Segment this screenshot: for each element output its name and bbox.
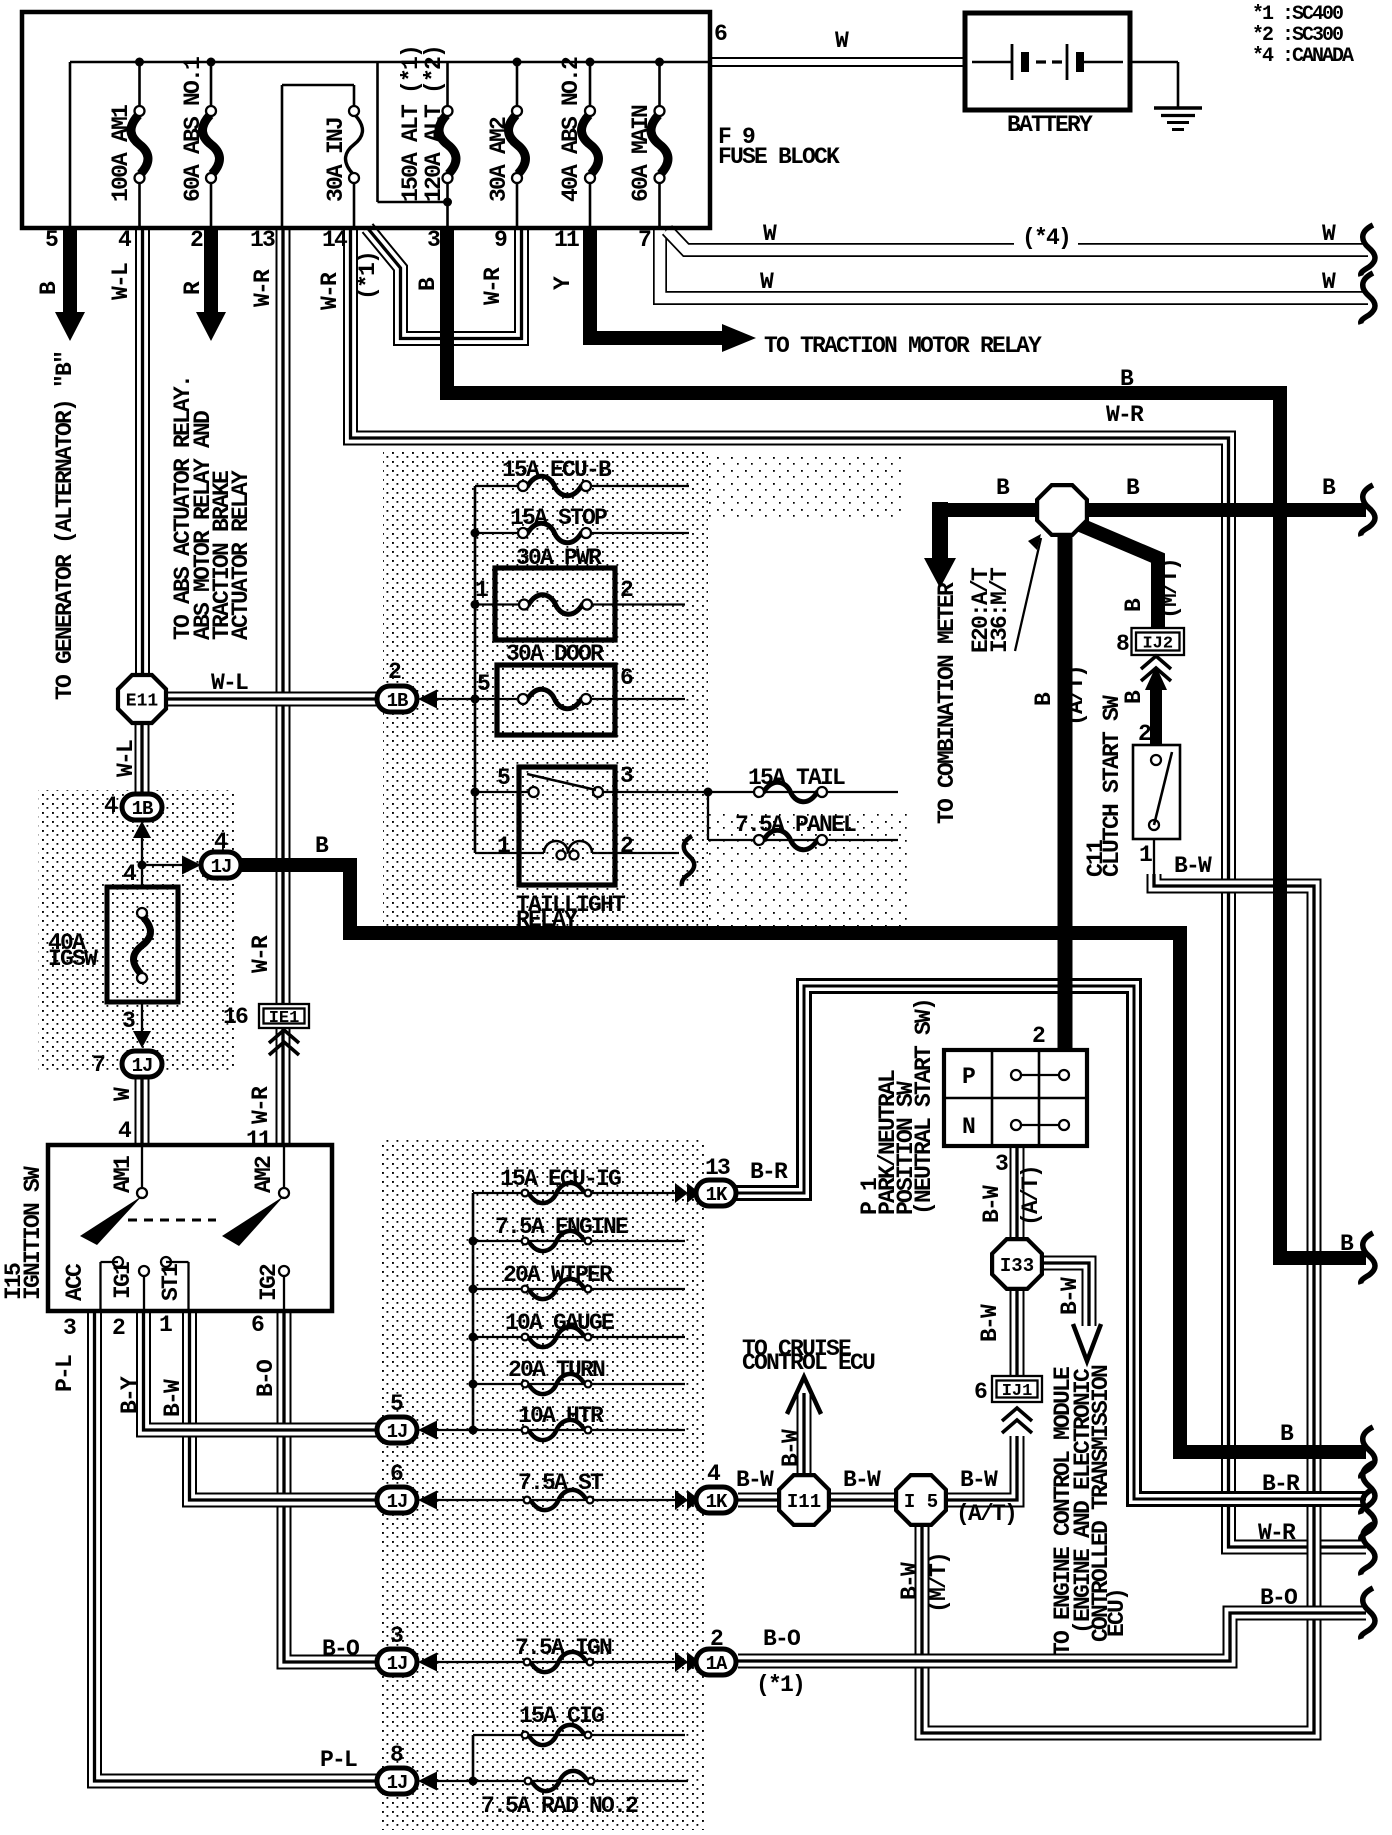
svg-text:B-O: B-O [763, 1626, 800, 1652]
svg-text:B: B [1280, 1421, 1294, 1447]
svg-text:2: 2 [710, 1626, 723, 1652]
svg-text:W-L: W-L [211, 670, 248, 696]
svg-text:7.5A IGN: 7.5A IGN [515, 1635, 612, 1661]
svg-text:15A TAIL: 15A TAIL [748, 765, 845, 791]
svg-text:2: 2 [388, 659, 401, 685]
svg-text:E11: E11 [126, 691, 159, 711]
svg-text:W-R: W-R [317, 272, 343, 310]
svg-text:FUSE BLOCK: FUSE BLOCK [718, 144, 840, 170]
svg-text:4: 4 [118, 227, 132, 253]
svg-text:I36:M/T: I36:M/T [987, 567, 1013, 653]
svg-text:2: 2 [112, 1315, 125, 1341]
svg-text:4: 4 [118, 1118, 132, 1144]
svg-text:W: W [763, 221, 777, 247]
svg-text:10A HTR: 10A HTR [518, 1403, 604, 1429]
svg-text:TO COMBINATION METER: TO COMBINATION METER [934, 582, 960, 824]
svg-text:1A: 1A [706, 1653, 728, 1675]
svg-text:7.5A ST: 7.5A ST [518, 1470, 604, 1496]
svg-text:W-R: W-R [250, 269, 276, 307]
svg-text:1: 1 [159, 1312, 172, 1338]
svg-text:B-W: B-W [977, 1304, 1003, 1342]
svg-text:B-W: B-W [736, 1467, 774, 1493]
svg-text:13: 13 [705, 1155, 730, 1181]
svg-text:B-O: B-O [253, 1360, 279, 1397]
svg-text:B-W: B-W [960, 1467, 998, 1493]
svg-text:1J: 1J [387, 1772, 408, 1794]
svg-text:5: 5 [497, 765, 510, 791]
svg-text:30A INJ: 30A INJ [323, 118, 349, 202]
svg-text:7.5A ENGINE: 7.5A ENGINE [495, 1214, 628, 1240]
svg-text:W-R: W-R [1258, 1520, 1296, 1546]
svg-text:W: W [1322, 269, 1336, 295]
svg-text:2: 2 [190, 227, 203, 253]
svg-text:IJ1: IJ1 [1002, 1382, 1033, 1401]
svg-text:R: R [180, 281, 206, 295]
svg-text:W-R: W-R [1106, 402, 1144, 428]
svg-text:B-R: B-R [1262, 1471, 1300, 1497]
svg-text:B: B [1126, 475, 1140, 501]
svg-text:Y: Y [550, 276, 576, 290]
svg-text:ST1: ST1 [158, 1264, 184, 1301]
svg-text:30A PWR: 30A PWR [516, 545, 602, 571]
svg-text:(A/T): (A/T) [956, 1501, 1016, 1527]
svg-text:ACC: ACC [62, 1263, 88, 1301]
svg-text:I11: I11 [787, 1491, 821, 1513]
svg-text:I33: I33 [1000, 1255, 1034, 1277]
svg-text:B-O: B-O [322, 1636, 359, 1662]
svg-text:2: 2 [1138, 721, 1151, 747]
svg-text:B-W: B-W [160, 1379, 186, 1417]
svg-text:1J: 1J [211, 856, 232, 878]
svg-text:3: 3 [620, 763, 633, 789]
svg-text:30A AM2: 30A AM2 [486, 117, 512, 202]
svg-text:4: 4 [707, 1461, 721, 1487]
svg-text:B-W: B-W [843, 1467, 881, 1493]
svg-text:16: 16 [223, 1004, 248, 1030]
svg-text:W-L: W-L [113, 740, 139, 777]
svg-text:B-W: B-W [778, 1429, 804, 1467]
svg-text:P: P [962, 1064, 975, 1090]
svg-text:W-R: W-R [248, 935, 274, 973]
svg-text:(*4): (*4) [1022, 225, 1070, 251]
svg-text:7.5A RAD NO.2: 7.5A RAD NO.2 [481, 1793, 638, 1819]
svg-text:30A DOOR: 30A DOOR [506, 641, 604, 667]
svg-text:13: 13 [250, 227, 275, 253]
svg-text:15A ECU-IG: 15A ECU-IG [500, 1166, 621, 1192]
svg-text:IE1: IE1 [269, 1009, 300, 1028]
svg-text:6: 6 [974, 1379, 987, 1405]
svg-text:W: W [110, 1087, 136, 1101]
svg-text:15A STOP: 15A STOP [510, 505, 607, 531]
svg-text:1B: 1B [387, 690, 408, 712]
svg-text:B-R: B-R [750, 1159, 788, 1185]
svg-text:2: 2 [620, 833, 633, 859]
svg-text:5: 5 [45, 227, 58, 253]
svg-text:B: B [996, 475, 1010, 501]
svg-text:8: 8 [1116, 631, 1129, 657]
svg-text:11: 11 [554, 227, 579, 253]
svg-text:(A/T): (A/T) [1018, 1166, 1044, 1226]
svg-text:1B: 1B [132, 798, 153, 820]
svg-text:W-R: W-R [248, 1086, 274, 1124]
svg-text:CLUTCH START SW: CLUTCH START SW [1099, 695, 1125, 877]
svg-text:4: 4 [123, 861, 137, 887]
svg-text:100A AM1: 100A AM1 [108, 105, 134, 202]
svg-text:3: 3 [427, 227, 440, 253]
svg-text:4: 4 [104, 793, 118, 819]
svg-text:6: 6 [390, 1461, 403, 1487]
svg-text:2: 2 [1032, 1023, 1045, 1049]
svg-text:120A ALT (*2): 120A ALT (*2) [421, 46, 447, 202]
svg-text:6: 6 [620, 665, 633, 691]
svg-text:B: B [1031, 692, 1057, 706]
svg-text:10A GAUGE: 10A GAUGE [505, 1310, 614, 1336]
svg-text:B: B [415, 277, 441, 291]
svg-text:B-Y: B-Y [117, 1376, 143, 1414]
svg-text:IGSW: IGSW [48, 946, 98, 972]
svg-text:W-R: W-R [480, 267, 506, 305]
svg-text:60A ABS NO.1: 60A ABS NO.1 [180, 57, 206, 202]
svg-text:1: 1 [1139, 842, 1152, 868]
svg-text:B-W: B-W [979, 1185, 1005, 1223]
svg-text:8: 8 [390, 1742, 403, 1768]
svg-text:3: 3 [390, 1623, 403, 1649]
svg-text:N: N [962, 1114, 975, 1140]
svg-text:3: 3 [122, 1008, 135, 1034]
svg-text:I 5: I 5 [904, 1491, 938, 1513]
svg-text:AM1: AM1 [110, 1156, 136, 1193]
svg-text:1J: 1J [387, 1421, 408, 1443]
svg-text:(*1): (*1) [756, 1672, 804, 1698]
svg-text:B: B [1121, 598, 1147, 612]
svg-text:TO TRACTION MOTOR RELAY: TO TRACTION MOTOR RELAY [764, 333, 1042, 359]
svg-text:40A ABS NO.2: 40A ABS NO.2 [558, 57, 584, 202]
svg-text:*2 :SC300: *2 :SC300 [1252, 24, 1343, 47]
svg-text:11: 11 [246, 1127, 271, 1153]
svg-text:*4 :CANADA: *4 :CANADA [1252, 45, 1354, 68]
svg-text:B: B [36, 281, 62, 295]
svg-text:IG1: IG1 [110, 1262, 136, 1299]
svg-text:(M/T): (M/T) [926, 1553, 952, 1613]
svg-text:IG2: IG2 [256, 1264, 282, 1301]
svg-text:TO GENERATOR (ALTERNATOR) "B": TO GENERATOR (ALTERNATOR) "B" [52, 352, 78, 700]
svg-text:(*1): (*1) [355, 252, 381, 300]
svg-text:9: 9 [494, 227, 507, 253]
svg-text:(M/T): (M/T) [1157, 559, 1183, 619]
svg-text:B: B [315, 833, 329, 859]
svg-text:B-O: B-O [1260, 1585, 1297, 1611]
svg-text:1K: 1K [706, 1184, 728, 1206]
svg-text:3: 3 [63, 1315, 76, 1341]
svg-text:IGNITION SW: IGNITION SW [20, 1166, 46, 1300]
svg-text:W: W [835, 28, 849, 54]
svg-text:2: 2 [620, 577, 633, 603]
svg-text:B: B [1322, 475, 1336, 501]
svg-text:B-W: B-W [897, 1562, 923, 1600]
svg-text:IJ2: IJ2 [1142, 635, 1173, 654]
svg-text:60A MAIN: 60A MAIN [628, 105, 654, 202]
svg-text:P-L: P-L [320, 1747, 357, 1773]
svg-text:W-L: W-L [108, 263, 134, 300]
svg-text:1J: 1J [387, 1491, 408, 1513]
svg-text:AM2: AM2 [251, 1156, 277, 1193]
svg-text:20A WIPER: 20A WIPER [503, 1262, 613, 1288]
svg-text:*1 :SC400: *1 :SC400 [1252, 3, 1343, 26]
svg-text:B-W: B-W [1174, 853, 1212, 879]
svg-text:7: 7 [92, 1052, 105, 1078]
svg-text:15A CIG: 15A CIG [519, 1703, 604, 1729]
svg-text:RELAY: RELAY [516, 907, 578, 933]
svg-text:W: W [1322, 221, 1336, 247]
svg-text:W: W [760, 269, 774, 295]
svg-text:5: 5 [390, 1391, 403, 1417]
svg-text:P-L: P-L [52, 1355, 78, 1392]
svg-text:CONTROL ECU: CONTROL ECU [742, 1350, 875, 1376]
svg-text:3: 3 [995, 1151, 1008, 1177]
svg-text:20A TURN: 20A TURN [508, 1357, 605, 1383]
svg-text:BATTERY: BATTERY [1007, 112, 1093, 138]
svg-text:1: 1 [497, 833, 510, 859]
svg-text:1J: 1J [132, 1055, 153, 1077]
svg-text:1J: 1J [387, 1653, 408, 1675]
svg-text:1: 1 [475, 577, 488, 603]
svg-text:15A ECU-B: 15A ECU-B [502, 457, 612, 483]
svg-text:B: B [1340, 1231, 1354, 1257]
svg-text:B: B [1120, 366, 1134, 392]
svg-text:7.5A PANEL: 7.5A PANEL [735, 812, 856, 838]
svg-text:4: 4 [214, 829, 228, 855]
svg-text:14: 14 [322, 227, 348, 253]
svg-text:(A/T): (A/T) [1063, 666, 1089, 726]
svg-text:1K: 1K [706, 1491, 728, 1513]
svg-text:B-W: B-W [1057, 1277, 1083, 1315]
svg-text:6: 6 [251, 1312, 264, 1338]
svg-text:ECU): ECU) [1104, 1589, 1130, 1637]
svg-text:ACTUATOR RELAY: ACTUATOR RELAY [228, 470, 254, 640]
svg-text:7: 7 [638, 227, 651, 253]
svg-text:5: 5 [477, 671, 490, 697]
svg-text:(NEUTRAL START SW): (NEUTRAL START SW) [911, 999, 937, 1215]
svg-text:6: 6 [714, 21, 727, 47]
